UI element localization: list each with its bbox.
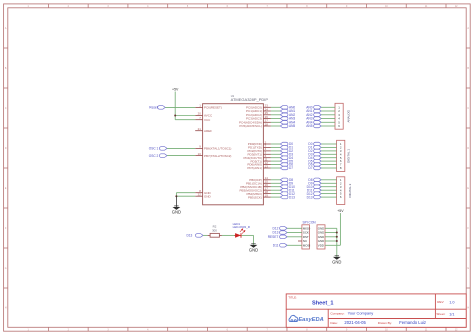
svg-text:OSC 1: OSC 1 — [149, 147, 159, 151]
svg-text:D13: D13 — [186, 234, 192, 238]
svg-text:EasyEDA: EasyEDA — [298, 317, 323, 323]
svg-text:13: 13 — [265, 164, 269, 168]
svg-text:28: 28 — [265, 122, 269, 126]
svg-text:PD7(AIN1): PD7(AIN1) — [247, 166, 262, 170]
svg-text:PB7(XTAL2/TOSC2): PB7(XTAL2/TOSC2) — [204, 154, 231, 158]
svg-text:D7: D7 — [308, 166, 312, 170]
svg-text:ATMEGA328P_PDIP: ATMEGA328P_PDIP — [231, 97, 269, 102]
svg-text:G: G — [5, 268, 7, 270]
svg-text:300: 300 — [212, 228, 217, 232]
svg-text:Company:: Company: — [330, 311, 344, 315]
svg-text:RESET: RESET — [268, 235, 279, 239]
svg-text:21: 21 — [198, 127, 202, 131]
svg-text:AN5: AN5 — [289, 124, 295, 128]
svg-text:+5V: +5V — [337, 209, 344, 213]
svg-text:GND: GND — [204, 194, 212, 198]
svg-text:G: G — [467, 268, 469, 270]
svg-text:SPI CON: SPI CON — [303, 221, 317, 225]
svg-text:PC5(ADC5/SCL): PC5(ADC5/SCL) — [239, 124, 262, 128]
svg-text:+5V: +5V — [172, 87, 179, 91]
svg-text:AREF: AREF — [204, 129, 212, 133]
svg-text:VCC: VCC — [204, 118, 211, 122]
svg-text:VDD: VDD — [318, 244, 324, 248]
svg-text:PB5(SCK): PB5(SCK) — [248, 195, 262, 199]
svg-text:PC6(RESET): PC6(RESET) — [204, 106, 222, 110]
svg-text:Reset: Reset — [149, 106, 157, 110]
svg-text:OSC 2: OSC 2 — [149, 154, 159, 158]
svg-text:22: 22 — [198, 192, 202, 196]
svg-text:GND: GND — [249, 247, 258, 252]
svg-text:ANALOG: ANALOG — [347, 109, 351, 122]
svg-text:D11: D11 — [273, 244, 279, 248]
svg-text:Sheet:: Sheet: — [436, 312, 445, 316]
svg-text:LED-0603_R: LED-0603_R — [233, 225, 251, 229]
svg-text:TITLE:: TITLE: — [288, 295, 297, 299]
svg-text:PB6(XTAL1/TOSC1): PB6(XTAL1/TOSC1) — [204, 147, 231, 151]
svg-text:AN5: AN5 — [306, 124, 312, 128]
svg-text:1/1: 1/1 — [449, 312, 454, 316]
svg-text:2021-04-05: 2021-04-05 — [344, 320, 366, 325]
svg-text:GND: GND — [332, 259, 341, 264]
svg-text:DIGITAL 1: DIGITAL 1 — [346, 149, 350, 163]
svg-text:1.0: 1.0 — [449, 301, 454, 305]
svg-text:D13: D13 — [289, 195, 295, 199]
svg-text:D7: D7 — [289, 166, 293, 170]
svg-text:Fernando Luiz: Fernando Luiz — [399, 320, 426, 325]
svg-text:Sheet_1: Sheet_1 — [312, 300, 333, 306]
svg-text:19: 19 — [265, 193, 269, 197]
svg-text:DIGITAL 2: DIGITAL 2 — [348, 183, 352, 197]
svg-text:D13: D13 — [307, 195, 313, 199]
svg-text:GND: GND — [172, 209, 181, 214]
svg-text:MOSI: MOSI — [303, 244, 311, 248]
svg-text:Your Company: Your Company — [348, 311, 374, 316]
svg-text:Date:: Date: — [330, 321, 338, 325]
svg-text:Drawn By:: Drawn By: — [378, 321, 392, 325]
svg-text:10: 10 — [198, 152, 202, 156]
svg-text:REV: REV — [437, 300, 444, 304]
